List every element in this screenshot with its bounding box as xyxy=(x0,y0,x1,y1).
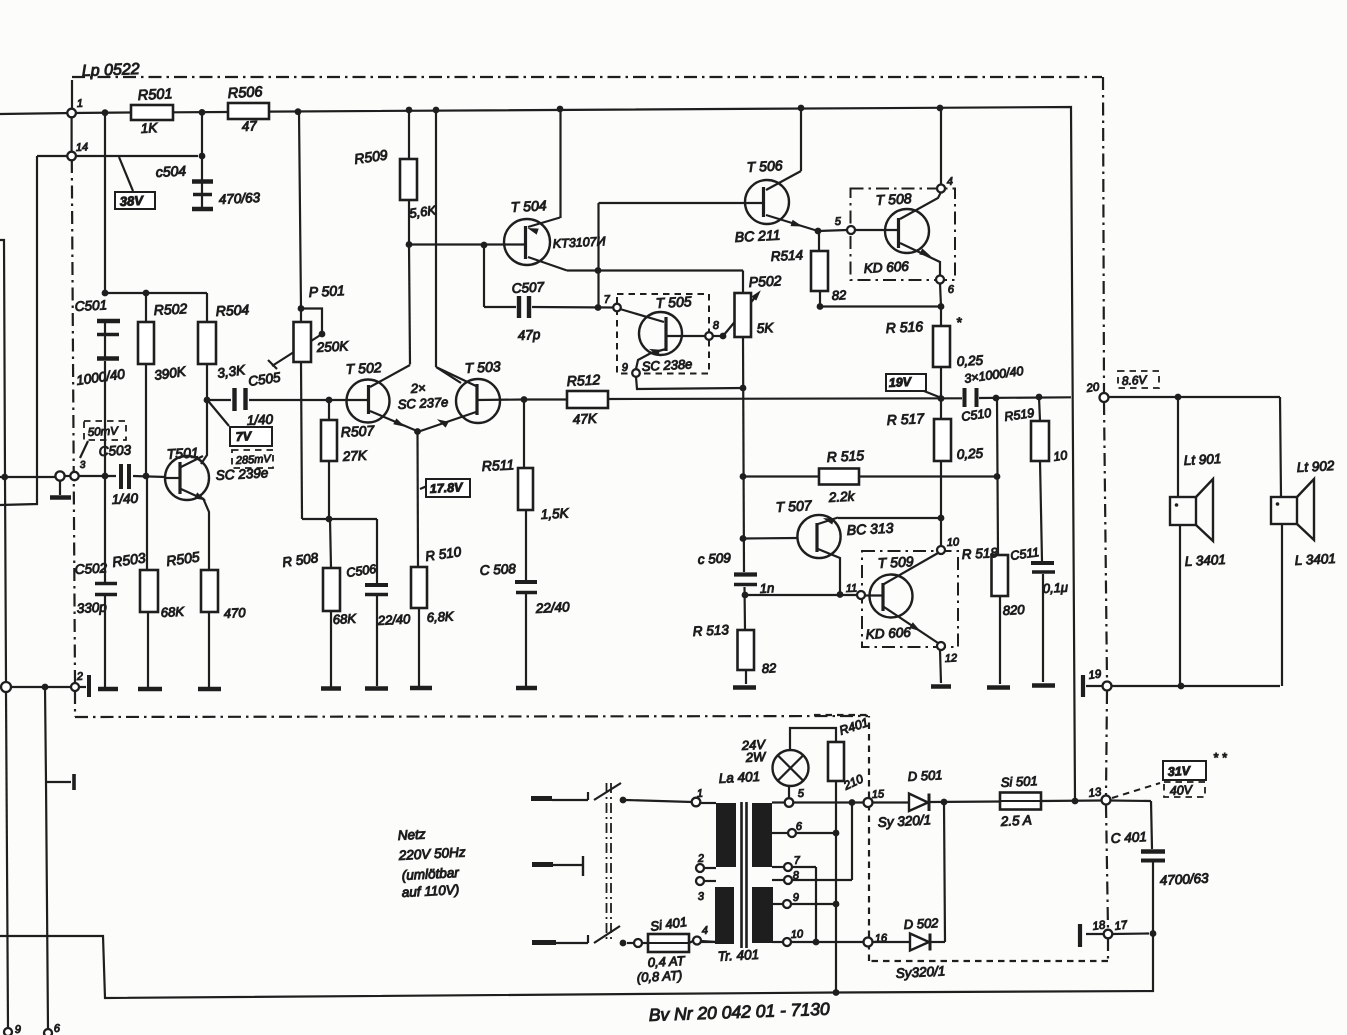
svg-text:1: 1 xyxy=(77,98,84,110)
svg-text:R 518: R 518 xyxy=(961,545,998,562)
svg-text:R504: R504 xyxy=(215,301,249,319)
svg-text:R501: R501 xyxy=(137,86,172,104)
svg-text:2.2k: 2.2k xyxy=(827,489,856,505)
svg-text:1,5K: 1,5K xyxy=(540,506,570,522)
svg-text:47K: 47K xyxy=(572,411,598,427)
svg-text:R511: R511 xyxy=(481,456,514,474)
svg-text:330p: 330p xyxy=(76,599,107,616)
svg-text:Netz: Netz xyxy=(397,827,426,843)
svg-text:47p: 47p xyxy=(517,327,541,343)
svg-text:R506: R506 xyxy=(227,84,263,102)
svg-text:L 3401: L 3401 xyxy=(1184,552,1226,569)
svg-text:BC 313: BC 313 xyxy=(846,520,894,538)
svg-text:1K: 1K xyxy=(140,120,158,136)
svg-text:18: 18 xyxy=(1092,919,1107,933)
svg-text:10: 10 xyxy=(791,928,805,941)
svg-text:P 501: P 501 xyxy=(308,282,345,300)
svg-text:T 502: T 502 xyxy=(345,359,382,377)
svg-text:10: 10 xyxy=(1052,448,1068,464)
svg-text:6,8K: 6,8K xyxy=(426,609,455,625)
svg-text:470/63: 470/63 xyxy=(218,190,261,207)
svg-text:82: 82 xyxy=(761,660,777,676)
svg-text:R 515: R 515 xyxy=(826,447,864,465)
svg-text:Lt 901: Lt 901 xyxy=(1183,451,1221,468)
svg-text:16: 16 xyxy=(875,932,889,945)
svg-text:auf 110V): auf 110V) xyxy=(401,882,459,900)
svg-text:(0,8 AT): (0,8 AT) xyxy=(636,968,682,985)
svg-text:3: 3 xyxy=(80,460,87,471)
svg-text:47: 47 xyxy=(241,118,257,134)
svg-text:T 508: T 508 xyxy=(875,190,912,208)
svg-text:Lp 0522: Lp 0522 xyxy=(82,61,140,80)
svg-text:SC 237e: SC 237e xyxy=(397,394,448,412)
svg-text:C502: C502 xyxy=(74,560,108,577)
svg-text:15: 15 xyxy=(872,788,886,801)
svg-text:La 401: La 401 xyxy=(718,769,760,786)
svg-text:D 501: D 501 xyxy=(907,767,942,784)
svg-text:820: 820 xyxy=(1002,602,1025,618)
svg-text:0,25: 0,25 xyxy=(956,446,984,462)
svg-text:12: 12 xyxy=(945,652,958,665)
svg-text:2×: 2× xyxy=(409,380,426,396)
svg-text:C 508: C 508 xyxy=(479,561,516,578)
svg-text:Si 501: Si 501 xyxy=(1000,773,1038,790)
svg-text:Tr. 401: Tr. 401 xyxy=(717,947,759,964)
svg-text:R514: R514 xyxy=(770,247,803,264)
svg-text:R512: R512 xyxy=(566,371,600,389)
svg-text:R 513: R 513 xyxy=(692,622,729,639)
svg-text:31V: 31V xyxy=(1167,764,1192,779)
svg-text:(umlötbar: (umlötbar xyxy=(401,865,459,883)
svg-text:c504: c504 xyxy=(155,162,186,180)
svg-text:P502: P502 xyxy=(748,272,782,290)
svg-text:C501: C501 xyxy=(74,297,107,314)
svg-text:38V: 38V xyxy=(119,193,144,209)
svg-text:Lt 902: Lt 902 xyxy=(1296,458,1335,475)
svg-text:T 506: T 506 xyxy=(746,157,783,175)
svg-text:22/40: 22/40 xyxy=(534,599,570,616)
svg-text:470: 470 xyxy=(223,605,246,621)
svg-text:22/40: 22/40 xyxy=(376,611,411,628)
svg-text:68K: 68K xyxy=(332,611,357,627)
svg-text:27K: 27K xyxy=(341,448,368,464)
svg-text:R 516: R 516 xyxy=(885,318,923,336)
svg-text:T501: T501 xyxy=(166,444,199,462)
svg-text:50mV: 50mV xyxy=(88,425,120,439)
svg-text:14: 14 xyxy=(76,141,89,154)
svg-text:SC 239e: SC 239e xyxy=(215,465,268,483)
svg-text:T 509: T 509 xyxy=(877,553,914,571)
svg-text:0,25: 0,25 xyxy=(956,353,984,369)
svg-text:9: 9 xyxy=(793,892,800,904)
svg-text:c 509: c 509 xyxy=(697,550,731,567)
svg-text:T 503: T 503 xyxy=(464,358,501,376)
svg-text:40V: 40V xyxy=(1169,783,1194,798)
svg-text:C503: C503 xyxy=(98,442,132,459)
svg-text:KD 606: KD 606 xyxy=(863,259,909,276)
svg-text:Sy 320/1: Sy 320/1 xyxy=(877,812,931,830)
svg-text:4: 4 xyxy=(702,925,709,937)
svg-text:1n: 1n xyxy=(759,580,774,596)
svg-text:*: * xyxy=(956,314,962,330)
svg-text:11: 11 xyxy=(846,582,858,595)
svg-text:BC 211: BC 211 xyxy=(734,227,780,245)
svg-text:20: 20 xyxy=(1085,381,1101,395)
svg-text:82: 82 xyxy=(831,287,847,303)
svg-text:* *: * * xyxy=(1213,750,1228,765)
svg-text:SC 238e: SC 238e xyxy=(641,356,692,374)
svg-text:4: 4 xyxy=(947,176,954,188)
svg-text:0,1μ: 0,1μ xyxy=(1042,580,1068,596)
svg-text:10: 10 xyxy=(947,536,961,549)
svg-text:R507: R507 xyxy=(340,422,375,440)
svg-text:C 401: C 401 xyxy=(1110,829,1147,846)
svg-text:2.5 A: 2.5 A xyxy=(999,812,1032,829)
svg-text:KD 606: KD 606 xyxy=(865,625,911,642)
svg-text:8.6V: 8.6V xyxy=(1121,373,1147,388)
svg-text:4700/63: 4700/63 xyxy=(1159,870,1209,888)
svg-text:T 505: T 505 xyxy=(655,293,692,311)
svg-text:KT3107И: KT3107И xyxy=(552,234,605,251)
svg-text:1/40: 1/40 xyxy=(246,412,274,428)
svg-text:T 507: T 507 xyxy=(775,497,813,515)
svg-text:285mV: 285mV xyxy=(235,453,273,467)
svg-text:R 517: R 517 xyxy=(886,410,925,428)
svg-text:17: 17 xyxy=(1114,919,1129,933)
svg-text:68K: 68K xyxy=(160,604,185,620)
svg-text:17.8V: 17.8V xyxy=(429,480,464,496)
svg-text:2: 2 xyxy=(697,853,705,865)
svg-text:D 502: D 502 xyxy=(903,915,939,932)
svg-text:13: 13 xyxy=(1088,786,1103,800)
svg-text:9: 9 xyxy=(15,1024,22,1035)
svg-text:1/40: 1/40 xyxy=(111,491,139,507)
svg-text:5K: 5K xyxy=(756,320,774,336)
svg-text:250K: 250K xyxy=(315,338,349,355)
svg-text:R502: R502 xyxy=(153,300,187,318)
svg-text:2W: 2W xyxy=(744,749,767,765)
svg-text:19V: 19V xyxy=(888,375,913,390)
svg-text:2: 2 xyxy=(76,671,84,683)
svg-text:7V: 7V xyxy=(235,429,253,444)
svg-text:T 504: T 504 xyxy=(510,197,547,215)
svg-text:L 3401: L 3401 xyxy=(1294,551,1336,568)
svg-text:Sy320/1: Sy320/1 xyxy=(895,963,945,981)
svg-text:C507: C507 xyxy=(511,279,545,296)
svg-text:19: 19 xyxy=(1088,668,1103,682)
svg-text:9: 9 xyxy=(622,362,629,374)
svg-text:1: 1 xyxy=(697,788,704,800)
